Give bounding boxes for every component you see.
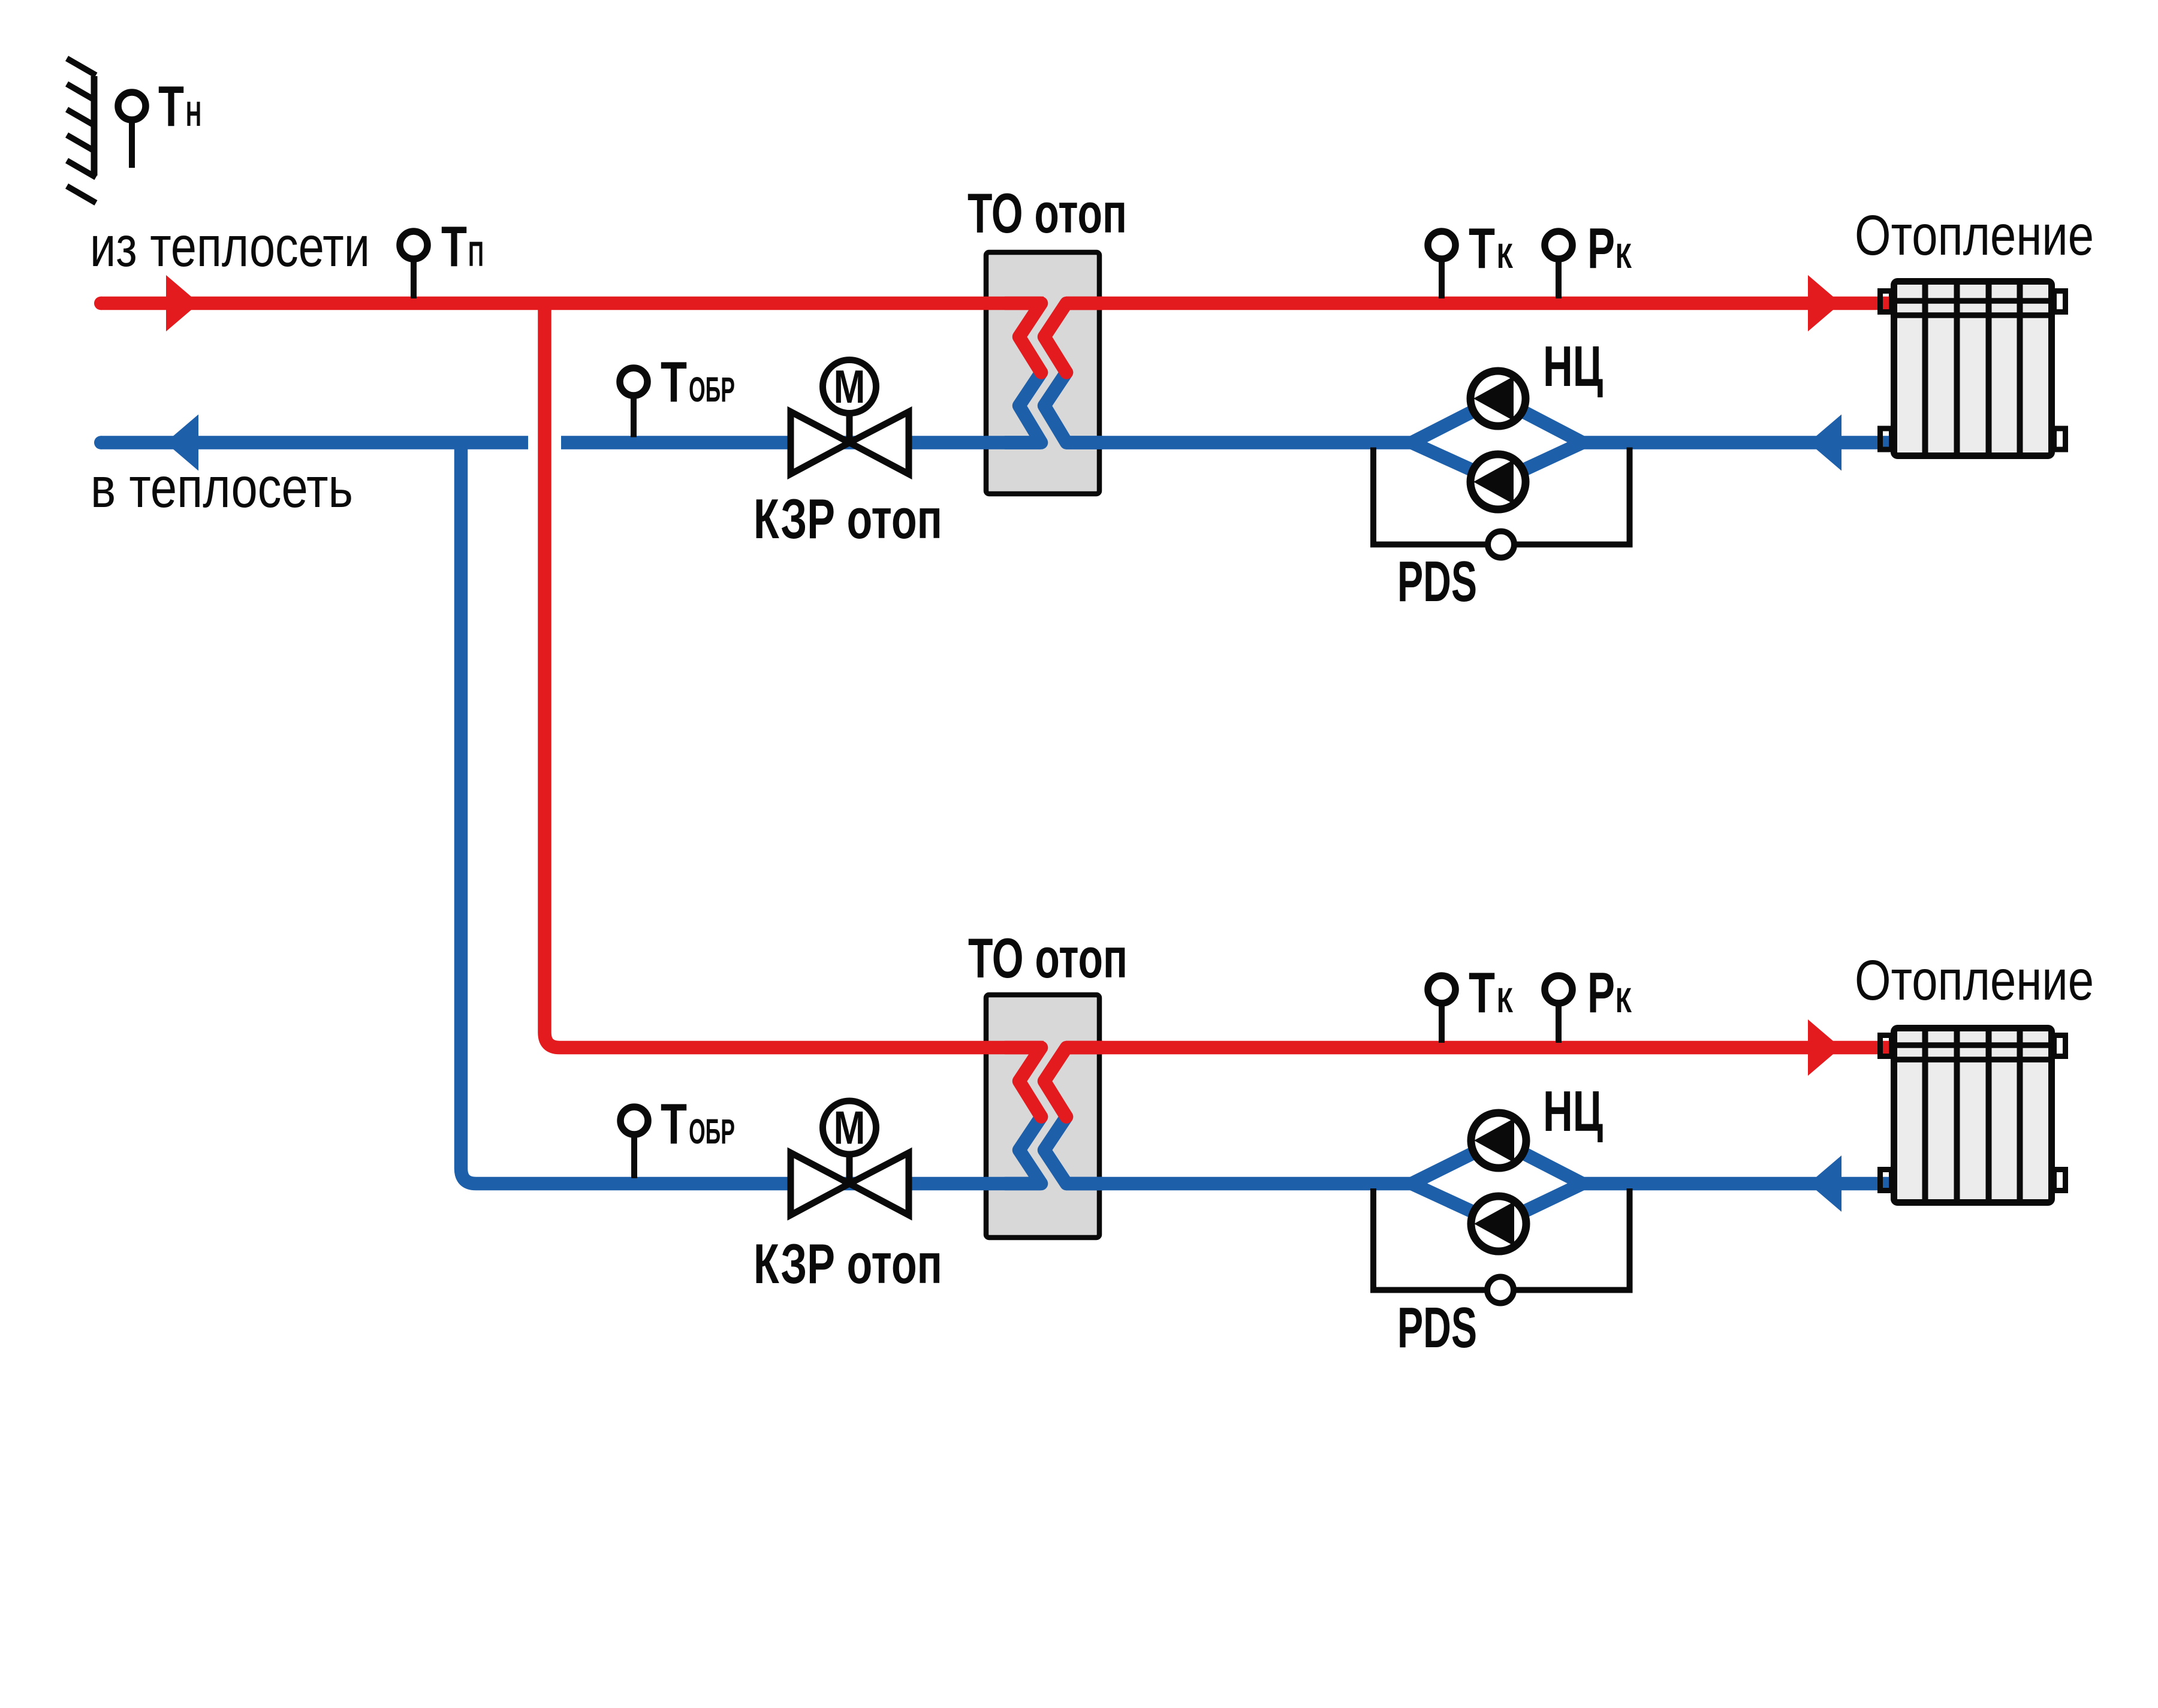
svg-text:М: М xyxy=(834,1102,866,1154)
label НЦ 1 xyxy=(1543,334,1603,399)
label Тобр 1 xyxy=(661,350,735,414)
label PDS 2 xyxy=(1397,1296,1477,1360)
svg-text:КЗР отоп: КЗР отоп xyxy=(754,1232,942,1295)
label Рк 2 xyxy=(1587,961,1632,1025)
label КЗР отоп 1 xyxy=(754,487,942,550)
svg-text:Т: Т xyxy=(661,1092,687,1156)
arrow red into radiator 1 xyxy=(1808,275,1841,331)
svg-text:Отопление: Отопление xyxy=(1855,204,2094,267)
wire red supply to radiator 2 xyxy=(1066,1041,1891,1055)
wire red supply main (left segment) xyxy=(94,297,1044,310)
label Рк 1 xyxy=(1587,216,1632,280)
radiator Отопление 1 xyxy=(1880,280,2066,457)
svg-text:К: К xyxy=(1497,981,1513,1020)
sensor Рк 2 xyxy=(1545,976,1572,1043)
sensor Тп (supply temperature) xyxy=(400,231,427,298)
svg-text:Т: Т xyxy=(1469,216,1495,280)
HX1 right zigzag coil xyxy=(1044,303,1102,443)
svg-text:из теплосети: из теплосети xyxy=(90,215,370,279)
label Тобр 2 xyxy=(661,1092,735,1156)
svg-text:К: К xyxy=(1616,981,1632,1020)
radiator Отопление 2 xyxy=(1880,1027,2066,1203)
pump НЦ 1 lower xyxy=(1470,454,1526,509)
wire blue return segment C2 (HX2 to pump fork 2) xyxy=(1066,1177,1412,1191)
label НЦ 2 xyxy=(1543,1079,1603,1143)
label ТО отоп 1 xyxy=(968,182,1127,245)
svg-text:ОБР: ОБР xyxy=(689,1112,735,1151)
svg-text:М: М xyxy=(834,360,866,413)
label из теплосети (from heat network) xyxy=(90,215,370,279)
HX1 left zigzag coil xyxy=(1005,303,1041,443)
pump НЦ 2 upper xyxy=(1471,1113,1526,1168)
wire blue return segment D2 (pumps 2 to radiator 2) xyxy=(1583,1177,1891,1191)
svg-text:НЦ: НЦ xyxy=(1543,1079,1603,1143)
arrow blue from radiator 1 xyxy=(1809,415,1841,471)
svg-text:ТО отоп: ТО отоп xyxy=(968,182,1127,245)
arrow blue from radiator 2 xyxy=(1809,1155,1841,1212)
pump НЦ 2 lower xyxy=(1471,1196,1526,1251)
sensor Тк 2 xyxy=(1428,976,1455,1043)
label КЗР отоп 2 xyxy=(754,1232,942,1295)
label Тп xyxy=(441,215,484,279)
label Отопление 1 xyxy=(1855,204,2094,267)
svg-text:PDS: PDS xyxy=(1397,550,1477,614)
label Тк 2 xyxy=(1469,961,1513,1025)
svg-text:Р: Р xyxy=(1587,961,1615,1025)
sensor Тн (outdoor temperature) xyxy=(118,92,146,168)
wire blue return main segment A xyxy=(94,436,528,449)
svg-text:Т: Т xyxy=(441,215,467,279)
label Тк 1 xyxy=(1469,216,1513,280)
wire blue return segment B (to heat exchanger 1) xyxy=(561,436,1041,449)
motor control valve КЗР отоп 2 xyxy=(791,1101,909,1215)
pump НЦ 1 upper xyxy=(1470,371,1526,426)
label ТО отоп 2 xyxy=(968,927,1128,989)
HX2 right zigzag coil xyxy=(1044,1048,1102,1184)
svg-text:КЗР отоп: КЗР отоп xyxy=(754,487,942,550)
svg-text:Т: Т xyxy=(158,74,184,138)
svg-text:Н: Н xyxy=(186,95,201,134)
label в теплосеть (to heat network) xyxy=(91,456,353,520)
wire blue riser to circuit 2 xyxy=(461,443,1041,1184)
heat exchanger ТО отоп 2 body xyxy=(986,995,1099,1238)
wire red supply to radiator 1 xyxy=(1066,297,1891,310)
wire blue return segment C (HX1 to pump fork 1) xyxy=(1066,436,1412,449)
motor control valve КЗР отоп 1 xyxy=(791,360,909,475)
pump bypass diamond 1 xyxy=(1412,399,1583,482)
svg-text:Р: Р xyxy=(1587,216,1615,280)
HX2 left zigzag coil xyxy=(1005,1048,1041,1184)
PDS differential pressure loop 1 xyxy=(1373,448,1630,545)
svg-text:ТО отоп: ТО отоп xyxy=(968,927,1128,989)
sensor Тобр 2 (return temperature) xyxy=(620,1107,648,1178)
svg-text:в теплосеть: в теплосеть xyxy=(91,456,353,520)
sensor Рк 1 xyxy=(1545,231,1572,298)
svg-text:Отопление: Отопление xyxy=(1855,949,2094,1012)
arrow red supply inlet xyxy=(166,275,199,331)
wire blue return segment D (pumps 1 to radiator 1) xyxy=(1583,436,1891,449)
arrow blue return outlet xyxy=(165,415,198,471)
svg-text:PDS: PDS xyxy=(1397,1296,1477,1360)
svg-text:Т: Т xyxy=(1469,961,1495,1025)
wire red riser to circuit 2 xyxy=(545,303,1044,1048)
svg-text:НЦ: НЦ xyxy=(1543,334,1603,399)
sensor Тк 1 xyxy=(1428,231,1455,298)
PDS sensor circle 1 xyxy=(1488,532,1514,558)
svg-text:К: К xyxy=(1497,237,1513,276)
svg-text:Т: Т xyxy=(661,350,687,414)
wall (outdoor) symbol xyxy=(67,59,97,203)
PDS differential pressure loop 2 xyxy=(1373,1188,1630,1290)
label PDS 1 xyxy=(1397,550,1477,614)
svg-text:ОБР: ОБР xyxy=(689,370,735,409)
PDS sensor circle 2 xyxy=(1487,1277,1514,1303)
svg-text:П: П xyxy=(468,235,484,274)
svg-text:К: К xyxy=(1616,237,1632,276)
heat exchanger ТО отоп 1 body xyxy=(986,252,1099,494)
sensor Тобр 1 (return temperature) xyxy=(620,368,647,437)
label Тн xyxy=(158,74,201,138)
arrow red into radiator 2 xyxy=(1808,1019,1841,1076)
label Отопление 2 xyxy=(1855,949,2094,1012)
pump bypass diamond 2 xyxy=(1412,1140,1583,1224)
